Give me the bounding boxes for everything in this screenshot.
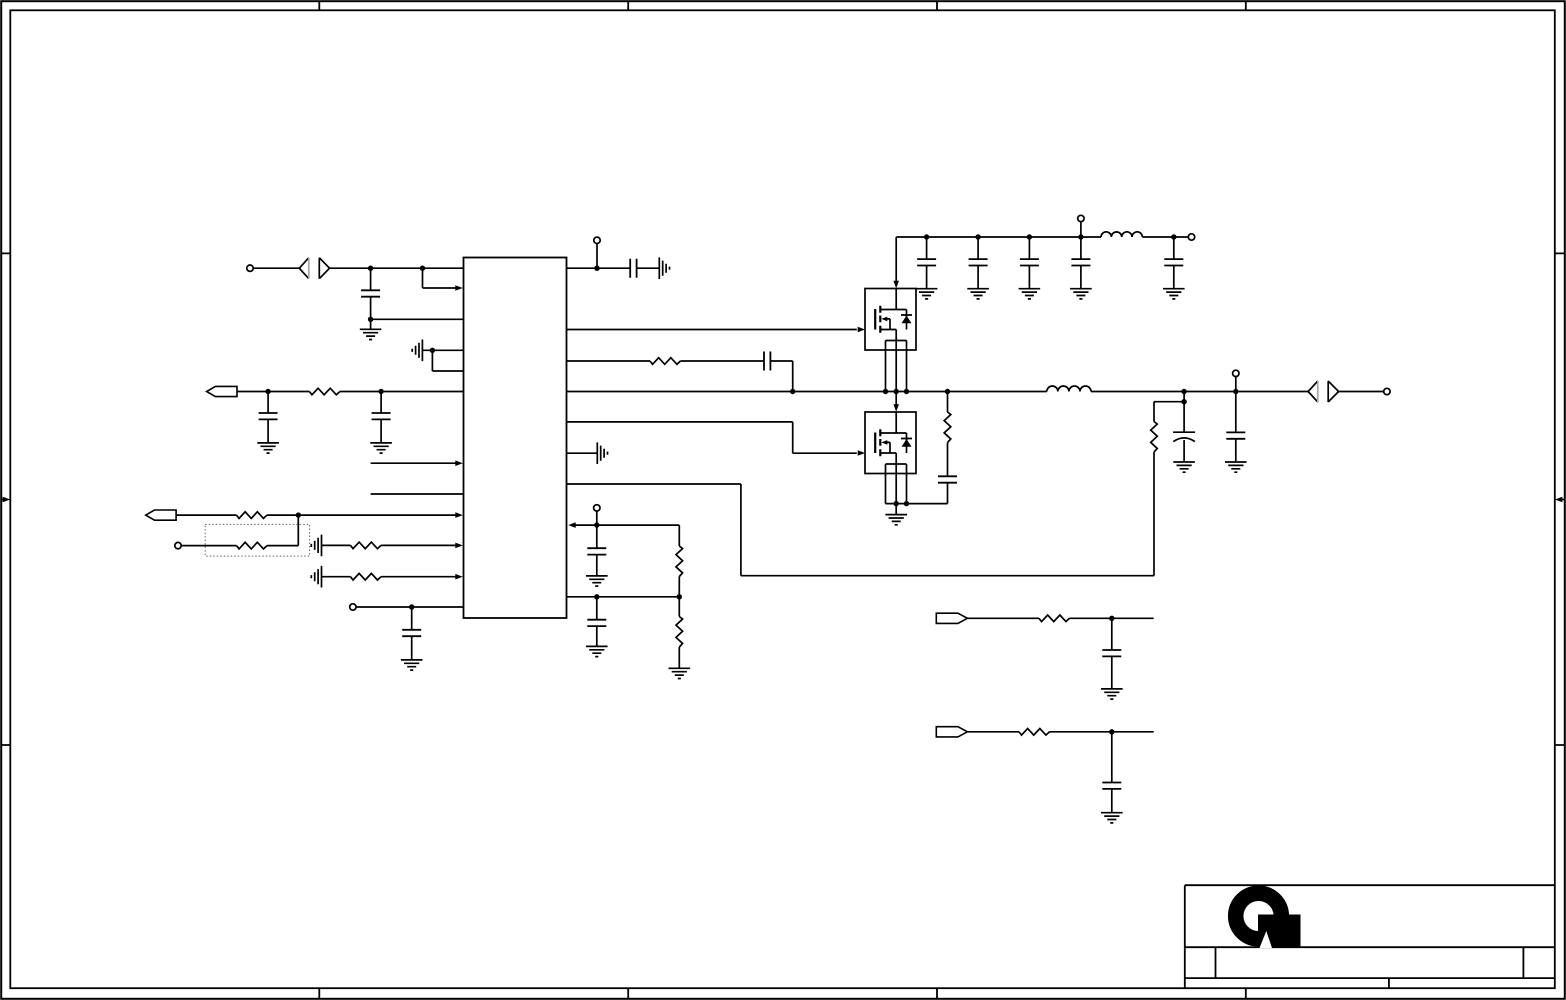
resistor R-fb-top bbox=[1151, 422, 1158, 453]
wire bbox=[1153, 402, 1155, 422]
ground bbox=[257, 443, 279, 453]
wire Q2 source bus bbox=[886, 503, 948, 505]
wire bbox=[567, 360, 651, 362]
resistor R-comp2 bbox=[678, 597, 680, 617]
resistor R-f1 bbox=[1039, 615, 1070, 622]
capacitor C-comp bbox=[596, 525, 598, 548]
wire Q1 drain bbox=[895, 237, 897, 282]
node junction bbox=[1027, 234, 1032, 239]
capacitor C-rail x1029 bbox=[1028, 237, 1030, 259]
wire bbox=[567, 452, 598, 454]
wire bbox=[678, 647, 680, 668]
wire bbox=[637, 267, 660, 269]
node junction bbox=[594, 594, 599, 599]
wire COMP bbox=[568, 522, 576, 528]
node junction bbox=[924, 234, 929, 239]
wire elbow up bbox=[267, 545, 298, 547]
wire bbox=[947, 443, 949, 477]
node junction bbox=[1109, 729, 1114, 734]
wire HS gate bbox=[567, 329, 857, 331]
node junction bbox=[883, 389, 888, 394]
capacitor C-rail x978 bbox=[977, 237, 979, 259]
capacitor C-f2 bbox=[1111, 732, 1113, 783]
node junction bbox=[904, 389, 909, 394]
node junction bbox=[368, 317, 373, 322]
wire bbox=[253, 267, 299, 269]
capacitor C-mode bbox=[411, 607, 413, 630]
terminal VOUT bbox=[1384, 388, 1390, 394]
ground bbox=[311, 566, 321, 588]
wire LS gate bbox=[567, 421, 793, 423]
port sense2 bbox=[936, 727, 967, 737]
wire Q2 drain bbox=[895, 392, 897, 406]
node junction bbox=[378, 389, 383, 394]
capacitor C-en1 bbox=[267, 392, 269, 414]
wire bbox=[947, 392, 949, 413]
wire bbox=[1142, 236, 1188, 238]
wire pin7 bbox=[371, 462, 457, 464]
ground bbox=[597, 442, 607, 464]
wire pin5 elbow bbox=[431, 350, 433, 371]
wire VCC bbox=[567, 267, 631, 269]
node junction bbox=[594, 266, 599, 271]
node junction bbox=[1181, 389, 1186, 394]
ground bbox=[916, 289, 938, 299]
port SS bbox=[146, 510, 176, 520]
node junction bbox=[1233, 389, 1238, 394]
capacitor C-rail x1080 bbox=[1080, 237, 1082, 259]
ground bbox=[401, 660, 423, 670]
resistor R-fs2 bbox=[351, 573, 382, 580]
node junction bbox=[790, 389, 795, 394]
ground bbox=[659, 257, 669, 279]
node junction bbox=[894, 389, 899, 394]
wire bbox=[967, 617, 1039, 619]
resistor R-comp bbox=[676, 546, 683, 576]
capacitor C-rail x1173 bbox=[1173, 237, 1175, 259]
wire to IC pin11 bbox=[381, 576, 456, 578]
capacitor C-en2 bbox=[380, 392, 382, 414]
ground bbox=[1101, 689, 1123, 699]
wire bbox=[237, 391, 309, 393]
terminal rail bbox=[1080, 222, 1082, 237]
terminal VIN input bbox=[247, 265, 253, 271]
ground bbox=[1163, 289, 1185, 299]
capacitor C-out1 polarized bbox=[1183, 392, 1185, 433]
wire bbox=[1339, 391, 1384, 393]
node junction bbox=[296, 512, 301, 517]
wire VIN rail bbox=[896, 236, 1101, 238]
transistor Q2 low-side NMOS bbox=[858, 412, 916, 474]
ground pin4 bbox=[412, 340, 422, 362]
port sense1 bbox=[936, 613, 967, 623]
inductor L-vin bbox=[1101, 232, 1142, 237]
terminal option bbox=[175, 542, 181, 548]
resistor R-opt bbox=[237, 542, 268, 549]
resistor R-en bbox=[309, 388, 340, 395]
wire bbox=[356, 606, 463, 608]
resistor R-boot bbox=[650, 358, 680, 365]
off-page connector output bbox=[1308, 381, 1318, 402]
title block outline bbox=[1185, 885, 1555, 988]
terminal comp bbox=[596, 511, 598, 525]
node junction bbox=[1109, 616, 1114, 621]
wire bbox=[681, 360, 765, 362]
wire bbox=[1050, 731, 1154, 733]
ground bbox=[669, 668, 691, 678]
wire to IC pin10 bbox=[381, 544, 456, 546]
resistor R-f2 bbox=[1019, 729, 1050, 736]
ground Q2 source bbox=[895, 504, 897, 515]
wire bbox=[1070, 617, 1154, 619]
ground bbox=[586, 576, 608, 586]
capacitor C-in1 bbox=[370, 268, 372, 290]
resistor R-fs1 bbox=[351, 542, 382, 549]
wire VOUT bbox=[1091, 391, 1308, 393]
node junction bbox=[420, 266, 425, 271]
capacitor C-rail x926 bbox=[926, 237, 928, 259]
right centering arrow bbox=[1561, 499, 1565, 501]
wire to IC pin9 bbox=[267, 514, 456, 516]
node junction bbox=[894, 501, 899, 506]
node junction bbox=[945, 389, 950, 394]
capacitor C-snub bbox=[938, 476, 957, 482]
node junction bbox=[409, 604, 414, 609]
node junction bbox=[1078, 234, 1083, 239]
ground bbox=[311, 535, 321, 557]
ground bbox=[360, 329, 382, 339]
wire FB route bbox=[567, 483, 741, 485]
transistor Q1 high-side NMOS bbox=[858, 289, 916, 351]
wire bbox=[678, 577, 680, 597]
wire to IC pin3 bbox=[371, 318, 464, 320]
node junction bbox=[1171, 234, 1176, 239]
ground bbox=[1019, 289, 1041, 299]
resistor R-snub bbox=[944, 412, 951, 443]
wire pin2 elbow bbox=[422, 268, 424, 288]
terminal mode bbox=[350, 604, 356, 610]
ground bbox=[967, 289, 989, 299]
node junction bbox=[430, 348, 435, 353]
IC U1 buck controller bbox=[464, 258, 567, 619]
node junction bbox=[677, 594, 682, 599]
wire bbox=[322, 544, 351, 546]
capacitor C-vcc bbox=[630, 259, 636, 278]
wire bbox=[967, 731, 1019, 733]
dnp highlight box bbox=[205, 524, 309, 556]
wire bbox=[567, 596, 680, 598]
port EN bbox=[207, 386, 237, 396]
wire bbox=[181, 545, 236, 547]
node junction bbox=[1181, 399, 1186, 404]
off-page connector input bbox=[299, 258, 309, 279]
resistor R-ss bbox=[237, 512, 268, 519]
wire bbox=[340, 391, 464, 393]
wire VIN to IC pin1 bbox=[330, 267, 464, 269]
node junction bbox=[975, 234, 980, 239]
left centering arrow bbox=[1, 499, 4, 501]
wire bbox=[176, 514, 236, 516]
wire elbow to SW bbox=[770, 360, 792, 362]
ground bbox=[1101, 813, 1123, 823]
node junction bbox=[368, 266, 373, 271]
wire Q1 source legs bbox=[886, 330, 907, 392]
inductor L-out bbox=[1047, 386, 1091, 392]
capacitor C-vref bbox=[596, 597, 598, 620]
wire SW bbox=[567, 391, 1047, 393]
ground bbox=[1225, 462, 1247, 472]
ground bbox=[586, 646, 608, 656]
terminal rail out bbox=[1188, 234, 1194, 240]
wire pin8 bbox=[371, 493, 464, 495]
wire bbox=[322, 576, 351, 578]
ground bbox=[1173, 462, 1195, 472]
node junction bbox=[594, 522, 599, 527]
company logo bbox=[1236, 893, 1301, 948]
wire elbow bbox=[678, 525, 680, 546]
ground bbox=[370, 443, 392, 453]
capacitor C-f1 bbox=[1111, 618, 1113, 650]
node junction bbox=[904, 501, 909, 506]
terminal vout sense bbox=[1235, 377, 1237, 392]
capacitor C-boot bbox=[764, 352, 770, 371]
wire bbox=[422, 349, 463, 351]
node junction bbox=[265, 389, 270, 394]
capacitor C-out2 bbox=[1235, 392, 1237, 433]
ground bbox=[1070, 289, 1092, 299]
wire Q2 source legs bbox=[886, 453, 907, 504]
terminal VCC bbox=[596, 243, 598, 268]
